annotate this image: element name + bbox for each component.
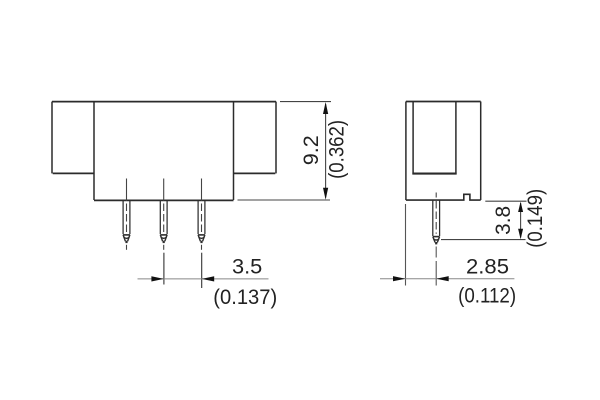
svg-text:2.85: 2.85: [466, 256, 509, 279]
svg-text:9.2: 9.2: [300, 135, 323, 165]
svg-text:3.8: 3.8: [492, 206, 515, 235]
svg-text:(0.149): (0.149): [524, 189, 547, 248]
svg-text:(0.137): (0.137): [213, 286, 277, 309]
svg-text:(0.112): (0.112): [458, 285, 516, 308]
svg-text:3.5: 3.5: [232, 256, 262, 279]
svg-text:(0.362): (0.362): [326, 120, 349, 179]
